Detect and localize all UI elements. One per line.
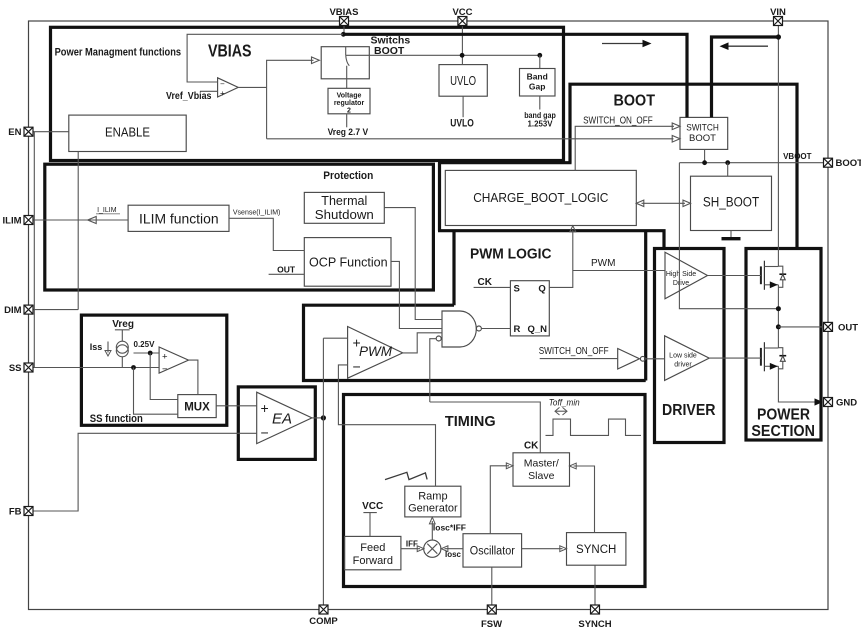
wire VR2 to Vreg label — [346, 114, 348, 128]
wire UVLO output — [462, 96, 464, 117]
svg-text:COMP: COMP — [309, 616, 338, 627]
svg-text:Oscillator: Oscillator — [470, 546, 515, 558]
CHARGE_BOOT_LOGIC box — [445, 170, 636, 225]
Master/Slave box — [513, 453, 570, 486]
node EA output junction — [321, 415, 326, 420]
svg-text:Toff_min: Toff_min — [549, 398, 580, 409]
pin SS — [24, 363, 33, 372]
svg-text:Feed: Feed — [360, 542, 385, 554]
Low side driver triangle — [665, 336, 710, 381]
wire EA output to node — [312, 417, 324, 419]
ILIM function box — [128, 205, 229, 231]
wire SWITCH BOOT bottom to VBOOT rail — [704, 149, 706, 162]
node band gap junction — [537, 53, 542, 58]
Thermal Shutdown box — [304, 192, 384, 223]
wire Vreg rail to SWITCH BOOT — [267, 138, 674, 140]
svg-text:+: + — [220, 89, 225, 98]
wire parallel vertical EN to SS row — [33, 132, 35, 368]
pin FSW — [487, 605, 496, 614]
Oscillator box — [463, 534, 522, 567]
block SS function — [81, 315, 226, 425]
wire lower SWITCH_ON_OFF to inverter — [540, 358, 618, 360]
wire VBOOT rail to BOOT pin — [679, 162, 823, 164]
Band Gap box — [520, 69, 556, 97]
transistor Q1 high-side MOSFET — [761, 261, 786, 290]
wire Oscillator to Master/Slave, arrow — [490, 466, 509, 534]
switch box (Switchs BOOT) — [321, 47, 369, 79]
node VIN junction — [776, 34, 781, 39]
svg-text:R: R — [514, 324, 521, 335]
pin FB — [24, 507, 33, 516]
op-amp EA (triangle) — [257, 392, 312, 443]
svg-text:VCC: VCC — [362, 501, 383, 512]
svg-text:Vreg 2.7 V: Vreg 2.7 V — [328, 127, 369, 137]
wire SS branch to MUX — [134, 368, 178, 415]
SH_BOOT box — [691, 176, 772, 230]
OCP Function box — [304, 238, 391, 287]
wire OUT net to pin — [778, 326, 823, 328]
node 0.25V junction — [148, 351, 153, 356]
multiplier circle with X — [424, 540, 441, 557]
svg-text:Vsense(I_ILIM): Vsense(I_ILIM) — [233, 210, 280, 217]
wire ILIM pin to ILIM function, arrow left — [33, 219, 128, 221]
NAND inverted input bubble — [436, 336, 441, 341]
svg-text:ILIM: ILIM — [3, 216, 22, 227]
svg-text:TIMING: TIMING — [445, 413, 496, 430]
wire buffer output — [238, 86, 266, 88]
wire PWM comparator output to NAND input 3 — [403, 333, 442, 353]
svg-text:I_ILIM: I_ILIM — [97, 207, 117, 214]
svg-text:VIN: VIN — [770, 7, 786, 18]
svg-text:OUT: OUT — [838, 322, 858, 333]
pin ILIM — [24, 216, 33, 225]
pin VIN — [774, 17, 783, 26]
svg-text:Shutdown: Shutdown — [315, 208, 374, 222]
block POWER SECTION — [746, 249, 821, 441]
svg-text:driver: driver — [674, 362, 692, 369]
svg-text:SS: SS — [9, 363, 22, 374]
svg-text:Iosc*IFF: Iosc*IFF — [433, 523, 466, 533]
svg-text:DIM: DIM — [4, 305, 22, 316]
switch symbol inside — [345, 47, 347, 56]
wire NAND output to R — [481, 328, 510, 330]
wire FB pin riser to EA minus — [33, 433, 257, 511]
wire Oscillator to multiplier, arrow left — [445, 548, 464, 550]
svg-text:Ramp: Ramp — [418, 490, 447, 502]
svg-text:PWM: PWM — [359, 344, 393, 359]
svg-text:DRIVER: DRIVER — [662, 402, 716, 419]
pin EN — [24, 127, 33, 136]
wire SS pin to comparator minus — [33, 367, 159, 369]
svg-text:VBIAS: VBIAS — [329, 7, 358, 18]
wire Vref_Vbias plus stub — [200, 90, 218, 92]
svg-text:CK: CK — [478, 277, 493, 288]
svg-text:BOOT: BOOT — [614, 93, 656, 110]
Voltage regulator 2 box — [328, 88, 370, 114]
comparator SS (small triangle) — [159, 347, 188, 373]
SR latch U_SR — [510, 281, 549, 336]
svg-text:PWM LOGIC: PWM LOGIC — [470, 247, 552, 263]
wire bandgap bottom — [539, 96, 541, 110]
NAND output bubble — [476, 326, 481, 331]
svg-text:1.253V: 1.253V — [528, 118, 553, 128]
svg-text:VCC: VCC — [452, 7, 472, 18]
wire OCP output to NAND input 2 — [391, 261, 442, 328]
svg-text:PWM: PWM — [591, 258, 615, 269]
svg-text:Thermal: Thermal — [321, 194, 367, 208]
svg-text:Iosc: Iosc — [445, 550, 462, 559]
block DRIVER — [655, 249, 725, 443]
svg-text:Low side: Low side — [669, 353, 697, 360]
wire NAND inverted input feed from timing — [430, 339, 436, 402]
svg-text:+: + — [261, 400, 269, 416]
Ramp Generator box — [405, 486, 461, 517]
svg-text:+: + — [162, 352, 168, 363]
op-amp buffer Vref_Vbias — [218, 78, 239, 97]
ground symbol under SH_BOOT — [730, 231, 732, 238]
wire high-side source chain to low-side drain — [777, 285, 779, 348]
waveform Toff_min pulses — [546, 419, 642, 435]
arrow flow left (decor) — [727, 45, 768, 47]
pin OUT — [824, 322, 833, 331]
ENABLE box U_EN — [69, 115, 186, 151]
node OUT junction — [776, 324, 781, 329]
comparator PWM (triangle) — [348, 327, 403, 379]
wire DIM pin — [33, 309, 78, 311]
wire 0.25V stub to comparator plus — [134, 352, 160, 354]
node SS junction — [131, 365, 136, 370]
node switch node junction — [776, 306, 781, 311]
svg-text:Iss: Iss — [90, 342, 103, 352]
transistor Q2 low-side MOSFET — [761, 342, 786, 371]
svg-text:Q: Q — [538, 283, 545, 294]
svg-text:GND: GND — [836, 398, 857, 409]
arrows between CHARGE_BOOT_LOGIC and SH_BOOT — [642, 202, 686, 204]
svg-text:SWITCH_ON_OFF: SWITCH_ON_OFF — [583, 115, 653, 126]
svg-text:ILIM function: ILIM function — [139, 211, 219, 226]
svg-text:OCP Function: OCP Function — [309, 255, 388, 270]
svg-text:POWER: POWER — [757, 407, 810, 424]
thick bus VIN to SWITCH BOOT — [712, 37, 779, 117]
wire ramp to PWM comparator minus — [338, 365, 435, 486]
wire EN pin to ENABLE — [33, 131, 69, 133]
wire inverter to Low side driver — [645, 358, 664, 360]
svg-text:SWITCH_ON_OFF: SWITCH_ON_OFF — [539, 346, 609, 357]
wire buffer output riser — [267, 60, 314, 139]
wire Vsense path ILIM to OCP — [229, 218, 304, 250]
svg-text:SYNCH: SYNCH — [576, 544, 616, 556]
wire current source to SS line — [121, 357, 123, 368]
node VCC junction — [460, 53, 465, 58]
block Protection — [45, 164, 434, 290]
wire FF to multiplier, arrow — [401, 548, 420, 550]
node VBOOT junction 2 — [725, 160, 730, 165]
block EA — [238, 387, 315, 460]
svg-text:Protection: Protection — [323, 170, 373, 182]
arrow flow right (decor) — [602, 43, 644, 45]
svg-text:CHARGE_BOOT_LOGIC: CHARGE_BOOT_LOGIC — [473, 191, 608, 205]
inverter before low side driver — [618, 349, 640, 370]
svg-text:EN: EN — [8, 127, 21, 138]
wire SYNCH box to SYNCH pin — [594, 565, 596, 605]
NAND gate U_NAND — [442, 311, 476, 347]
svg-text:Forward: Forward — [353, 555, 393, 567]
svg-text:−: − — [220, 79, 225, 88]
block CHARGE_BOOT_LOGIC thick enclosure + PWM LOGIC outline — [438, 163, 441, 231]
pin VBIAS — [340, 17, 349, 26]
wire VBOOT drop to switch node — [679, 163, 778, 309]
UVLO box — [439, 65, 487, 97]
svg-text:S: S — [514, 283, 520, 294]
wire COMP net vertical — [322, 338, 324, 605]
wire Oscillator to FSW pin — [491, 567, 493, 605]
node VBIAS junction — [341, 32, 346, 37]
thick joining segment BOOT bottom — [438, 161, 572, 164]
sawtooth ramp symbol — [385, 472, 427, 479]
svg-text:Slave: Slave — [528, 470, 554, 482]
wire VBIAS feedback to buffer minus — [187, 34, 343, 82]
svg-text:Q_N: Q_N — [527, 324, 547, 335]
svg-text:Vreg: Vreg — [112, 319, 134, 330]
wire SH_BOOT top feed — [727, 163, 729, 177]
svg-text:SYNCH: SYNCH — [578, 619, 611, 630]
svg-text:Power Managment functions: Power Managment functions — [55, 46, 182, 58]
svg-text:Generator: Generator — [408, 503, 458, 515]
SYNCH box — [567, 533, 626, 566]
wire High Side Drive to Q1 gate — [708, 275, 761, 277]
svg-text:−: − — [353, 359, 361, 375]
svg-text:SECTION: SECTION — [751, 423, 815, 440]
High Side Drive triangle — [665, 252, 708, 299]
wire band gap drop — [539, 55, 541, 68]
pin DIM — [24, 305, 33, 314]
svg-text:EA: EA — [272, 410, 292, 427]
pin COMP — [319, 605, 328, 614]
Feed Forward box — [345, 536, 401, 569]
svg-text:ENABLE: ENABLE — [105, 125, 150, 139]
wire VBIAS pin drop — [343, 26, 345, 35]
svg-text:Vref_Vbias: Vref_Vbias — [166, 91, 212, 102]
wire SS comparator output to MUX — [189, 360, 198, 395]
svg-text:UVLO: UVLO — [450, 118, 474, 130]
pin BOOT — [824, 158, 833, 167]
wire Low side driver to Q2 gate — [709, 357, 761, 359]
wire EA node to PWM comparator plus — [323, 337, 347, 339]
svg-text:FB: FB — [9, 507, 22, 518]
wire low-side source to GND pin — [778, 366, 816, 402]
svg-text:Band: Band — [527, 72, 548, 82]
svg-text:MUX: MUX — [184, 401, 210, 413]
svg-text:CK: CK — [524, 441, 539, 452]
svg-text:BOOT: BOOT — [689, 133, 716, 144]
svg-text:0.25V: 0.25V — [134, 340, 156, 349]
svg-text:UVLO: UVLO — [450, 73, 476, 88]
svg-text:VBOOT: VBOOT — [783, 152, 812, 161]
pin VCC — [458, 17, 467, 26]
svg-text:SH_BOOT: SH_BOOT — [703, 195, 759, 210]
svg-text:FSW: FSW — [481, 619, 502, 630]
svg-text:2: 2 — [347, 107, 351, 114]
svg-text:−: − — [162, 364, 168, 375]
thick bus VBIAS switches to SWITCH BOOT — [343, 34, 687, 117]
svg-text:Voltage: Voltage — [337, 92, 362, 99]
wire multiplier to Ramp Generator, arrow up — [431, 521, 433, 540]
wire Oscillator to SYNCH, arrow — [522, 548, 563, 550]
pin GND — [824, 398, 833, 407]
svg-text:regulator: regulator — [334, 100, 365, 107]
svg-text:−: − — [261, 425, 269, 441]
wire CK to S input — [474, 286, 511, 288]
svg-text:IFF: IFF — [406, 540, 418, 549]
wire SYNCH to Master/Slave, arrow — [574, 466, 595, 533]
wire internal VCC rail — [346, 54, 540, 56]
block Power Managment functions — [51, 27, 564, 160]
wire OUT net stub into OCP — [269, 273, 305, 275]
wire VIN pin drop to high-side drain — [777, 26, 779, 267]
current source Iss (two circles) — [116, 341, 128, 353]
node VBOOT junction 1 — [702, 160, 707, 165]
svg-text:High Side: High Side — [666, 271, 696, 278]
wire Q output riser to CHARGE_BOOT_LOGIC — [549, 230, 573, 287]
SWITCH BOOT box — [680, 117, 728, 149]
block BOOT outline — [570, 84, 797, 248]
wire Master/Slave CK riser to NAND — [430, 402, 541, 453]
svg-text:Drive: Drive — [673, 280, 689, 287]
MUX box — [178, 395, 216, 418]
block PWM comparator enclosure — [304, 305, 646, 380]
svg-text:SWITCH: SWITCH — [686, 122, 719, 133]
svg-text:OUT: OUT — [277, 265, 296, 275]
wire ENABLE bottom to DIM — [77, 152, 79, 310]
wire PWM net to High Side Drive — [573, 270, 665, 272]
svg-text:Gap: Gap — [529, 82, 546, 92]
svg-text:Master/: Master/ — [524, 457, 559, 469]
wire Thermal Shutdown to NAND input 1 — [384, 208, 442, 320]
double arrow under Toff_min — [556, 410, 567, 412]
block TIMING — [344, 395, 646, 587]
svg-text:BOOT: BOOT — [836, 158, 861, 169]
wire 0.25V branch to MUX — [150, 353, 178, 400]
wire CHARGE_BOOT_LOGIC to upper SWITCH_ON_OFF — [575, 126, 674, 170]
pin SYNCH — [591, 605, 600, 614]
svg-text:VBIAS: VBIAS — [208, 40, 252, 60]
wire VCC pin drop to UVLO — [461, 26, 463, 65]
wire MUX output to EA plus — [216, 405, 257, 407]
